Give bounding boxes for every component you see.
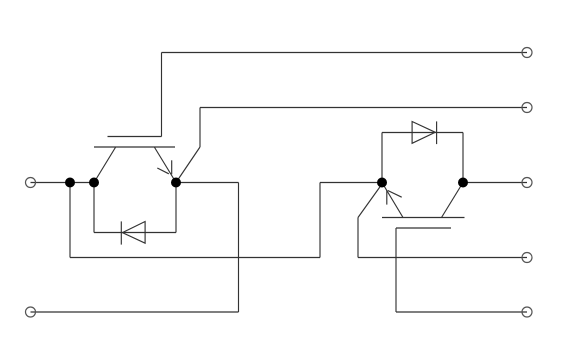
wire rail 2 vertical [199, 108, 201, 148]
terminal 1 (gate G1) [522, 48, 532, 58]
wire diode D2 left vertical [381, 133, 383, 183]
junction dot E [458, 178, 468, 188]
wire rail 2 diagonal to emitter node [176, 147, 200, 183]
transistor Q1 emitter arrow barb [171, 160, 173, 174]
wire rail 2 (aux emitter E1 to terminal 2) [200, 107, 527, 109]
diode D2 cathode bar [436, 121, 438, 144]
wire diode D2 right vertical [462, 133, 464, 183]
transistor Q2 body bar [382, 217, 465, 219]
terminal 2 (aux emitter E1) [522, 103, 532, 113]
wire diode D1 right vertical [175, 183, 177, 233]
wire gate G2 vertical [395, 228, 397, 312]
wire diode D1 row [94, 232, 176, 234]
wire right collector node to terminal 3 [463, 182, 527, 184]
terminal 4 (aux emitter E2) [522, 253, 532, 263]
junction dot A [65, 178, 75, 188]
transistor Q1 collector diagonal [94, 147, 116, 183]
terminal 3 (collector C2) [522, 178, 532, 188]
wire aux emitter diagonal Q2 [358, 184, 382, 218]
transistor Q2 collector diagonal [442, 183, 464, 218]
wire corner vertical down [238, 183, 240, 313]
wire from junction dot down [69, 183, 71, 258]
wire emitter node to corner [176, 182, 239, 184]
wire gate G2 to terminal 5 [396, 311, 527, 313]
transistor Q1 emitter arrow barb 2 [157, 168, 169, 174]
transistor Q2 emitter arrow barb [386, 190, 388, 204]
junction dot B [89, 178, 99, 188]
transistor Q2 emitter arrow barb 2 [388, 191, 402, 198]
diode D2 triangle [412, 122, 435, 144]
wire gate G1 vertical [161, 53, 163, 137]
diode D1 cathode bar [120, 221, 122, 244]
junction dot D [377, 178, 387, 188]
wire to right emitter node [320, 182, 382, 184]
transistor Q2 gate bar [396, 227, 451, 229]
wire left terminal to collector node [31, 182, 95, 184]
diode D1 triangle [122, 222, 145, 244]
wire aux emitter to terminal 4 [358, 257, 527, 259]
wire diode D1 left vertical [93, 183, 95, 233]
terminal L1 (collector C1) [26, 178, 36, 188]
junction dot C [171, 178, 181, 188]
terminal 5 (gate G2) [522, 307, 532, 317]
terminal L2 (emitter E1) [26, 307, 36, 317]
wire middle vertical up [319, 183, 321, 258]
transistor Q2 emitter diagonal [382, 183, 403, 218]
transistor Q1 emitter diagonal [154, 147, 176, 183]
wire top rail (gate G1 to terminal 1) [162, 52, 528, 54]
wire middle horizontal crossing [70, 257, 320, 259]
wire aux emitter vertical [357, 218, 359, 258]
wire bottom left horizontal to terminal L2 [31, 311, 239, 313]
wire diode D2 row [382, 132, 463, 134]
transistor Q1 gate bar [108, 136, 162, 138]
transistor Q1 body bar [94, 146, 175, 148]
